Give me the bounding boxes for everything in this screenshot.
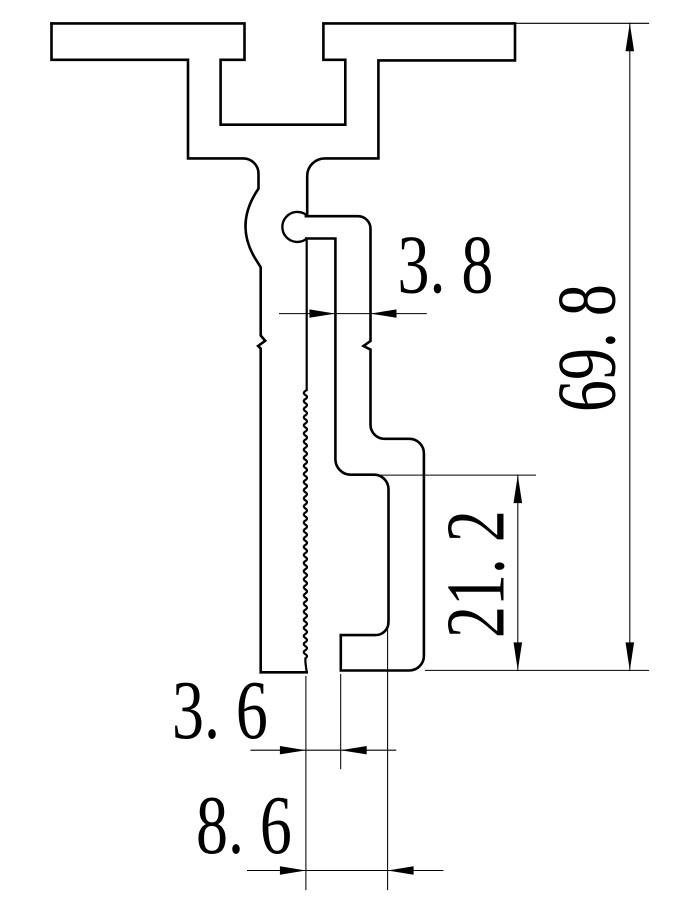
arrow right-pointing 3.6 bbox=[280, 746, 306, 754]
hook and C-channel outline with break bbox=[306, 216, 424, 670]
extension line right for 3.6 bbox=[340, 675, 342, 769]
arrow up 21.2 bbox=[514, 475, 523, 503]
dimension text 8.6 bbox=[196, 779, 292, 872]
svg-text:69. 8: 69. 8 bbox=[540, 284, 633, 412]
dimension line 21.2 bbox=[517, 475, 519, 670]
extension line top for 21.2 bbox=[381, 474, 536, 476]
dimension line 69.8 bbox=[629, 23, 631, 670]
pen-slot circle bbox=[282, 212, 306, 242]
extension line bottom for 21.2 and 69.8 bbox=[426, 669, 649, 671]
serrated edge of left wall bbox=[304, 239, 307, 673]
arrow down 21.2 bbox=[514, 642, 523, 670]
arrow right-pointing 8.6 bbox=[280, 866, 306, 874]
dimension text 21.2 bbox=[429, 510, 522, 638]
extension line left for 3.6 and 8.6 bbox=[305, 677, 307, 890]
arrow right-pointing 3.8 bbox=[309, 309, 335, 317]
arrow down 69.8 bbox=[626, 642, 635, 670]
profile top T-rail outline bbox=[52, 23, 516, 215]
extension line top for 69.8 bbox=[517, 22, 649, 24]
svg-text:3. 8: 3. 8 bbox=[398, 218, 494, 311]
svg-text:3. 6: 3. 6 bbox=[172, 664, 268, 757]
svg-text:21. 2: 21. 2 bbox=[429, 510, 522, 638]
dimension text 3.6 bbox=[172, 664, 268, 757]
arrow left-pointing 8.6 bbox=[388, 866, 414, 874]
arrow left-pointing 3.6 bbox=[341, 746, 367, 754]
dimension line 3.6 bbox=[251, 749, 396, 751]
dimension text 3.8 bbox=[398, 218, 494, 311]
extension line right for 8.6 bbox=[387, 622, 389, 890]
arrow up 69.8 bbox=[626, 23, 635, 51]
dimension line 3.8 bbox=[280, 313, 427, 315]
svg-text:8. 6: 8. 6 bbox=[196, 779, 292, 872]
dimension line 8.6 bbox=[248, 870, 443, 872]
profile left wall outline with groove and break bbox=[52, 23, 307, 672]
arrow left-pointing 3.8 bbox=[371, 309, 397, 317]
dimension text 69.8 bbox=[540, 284, 633, 412]
